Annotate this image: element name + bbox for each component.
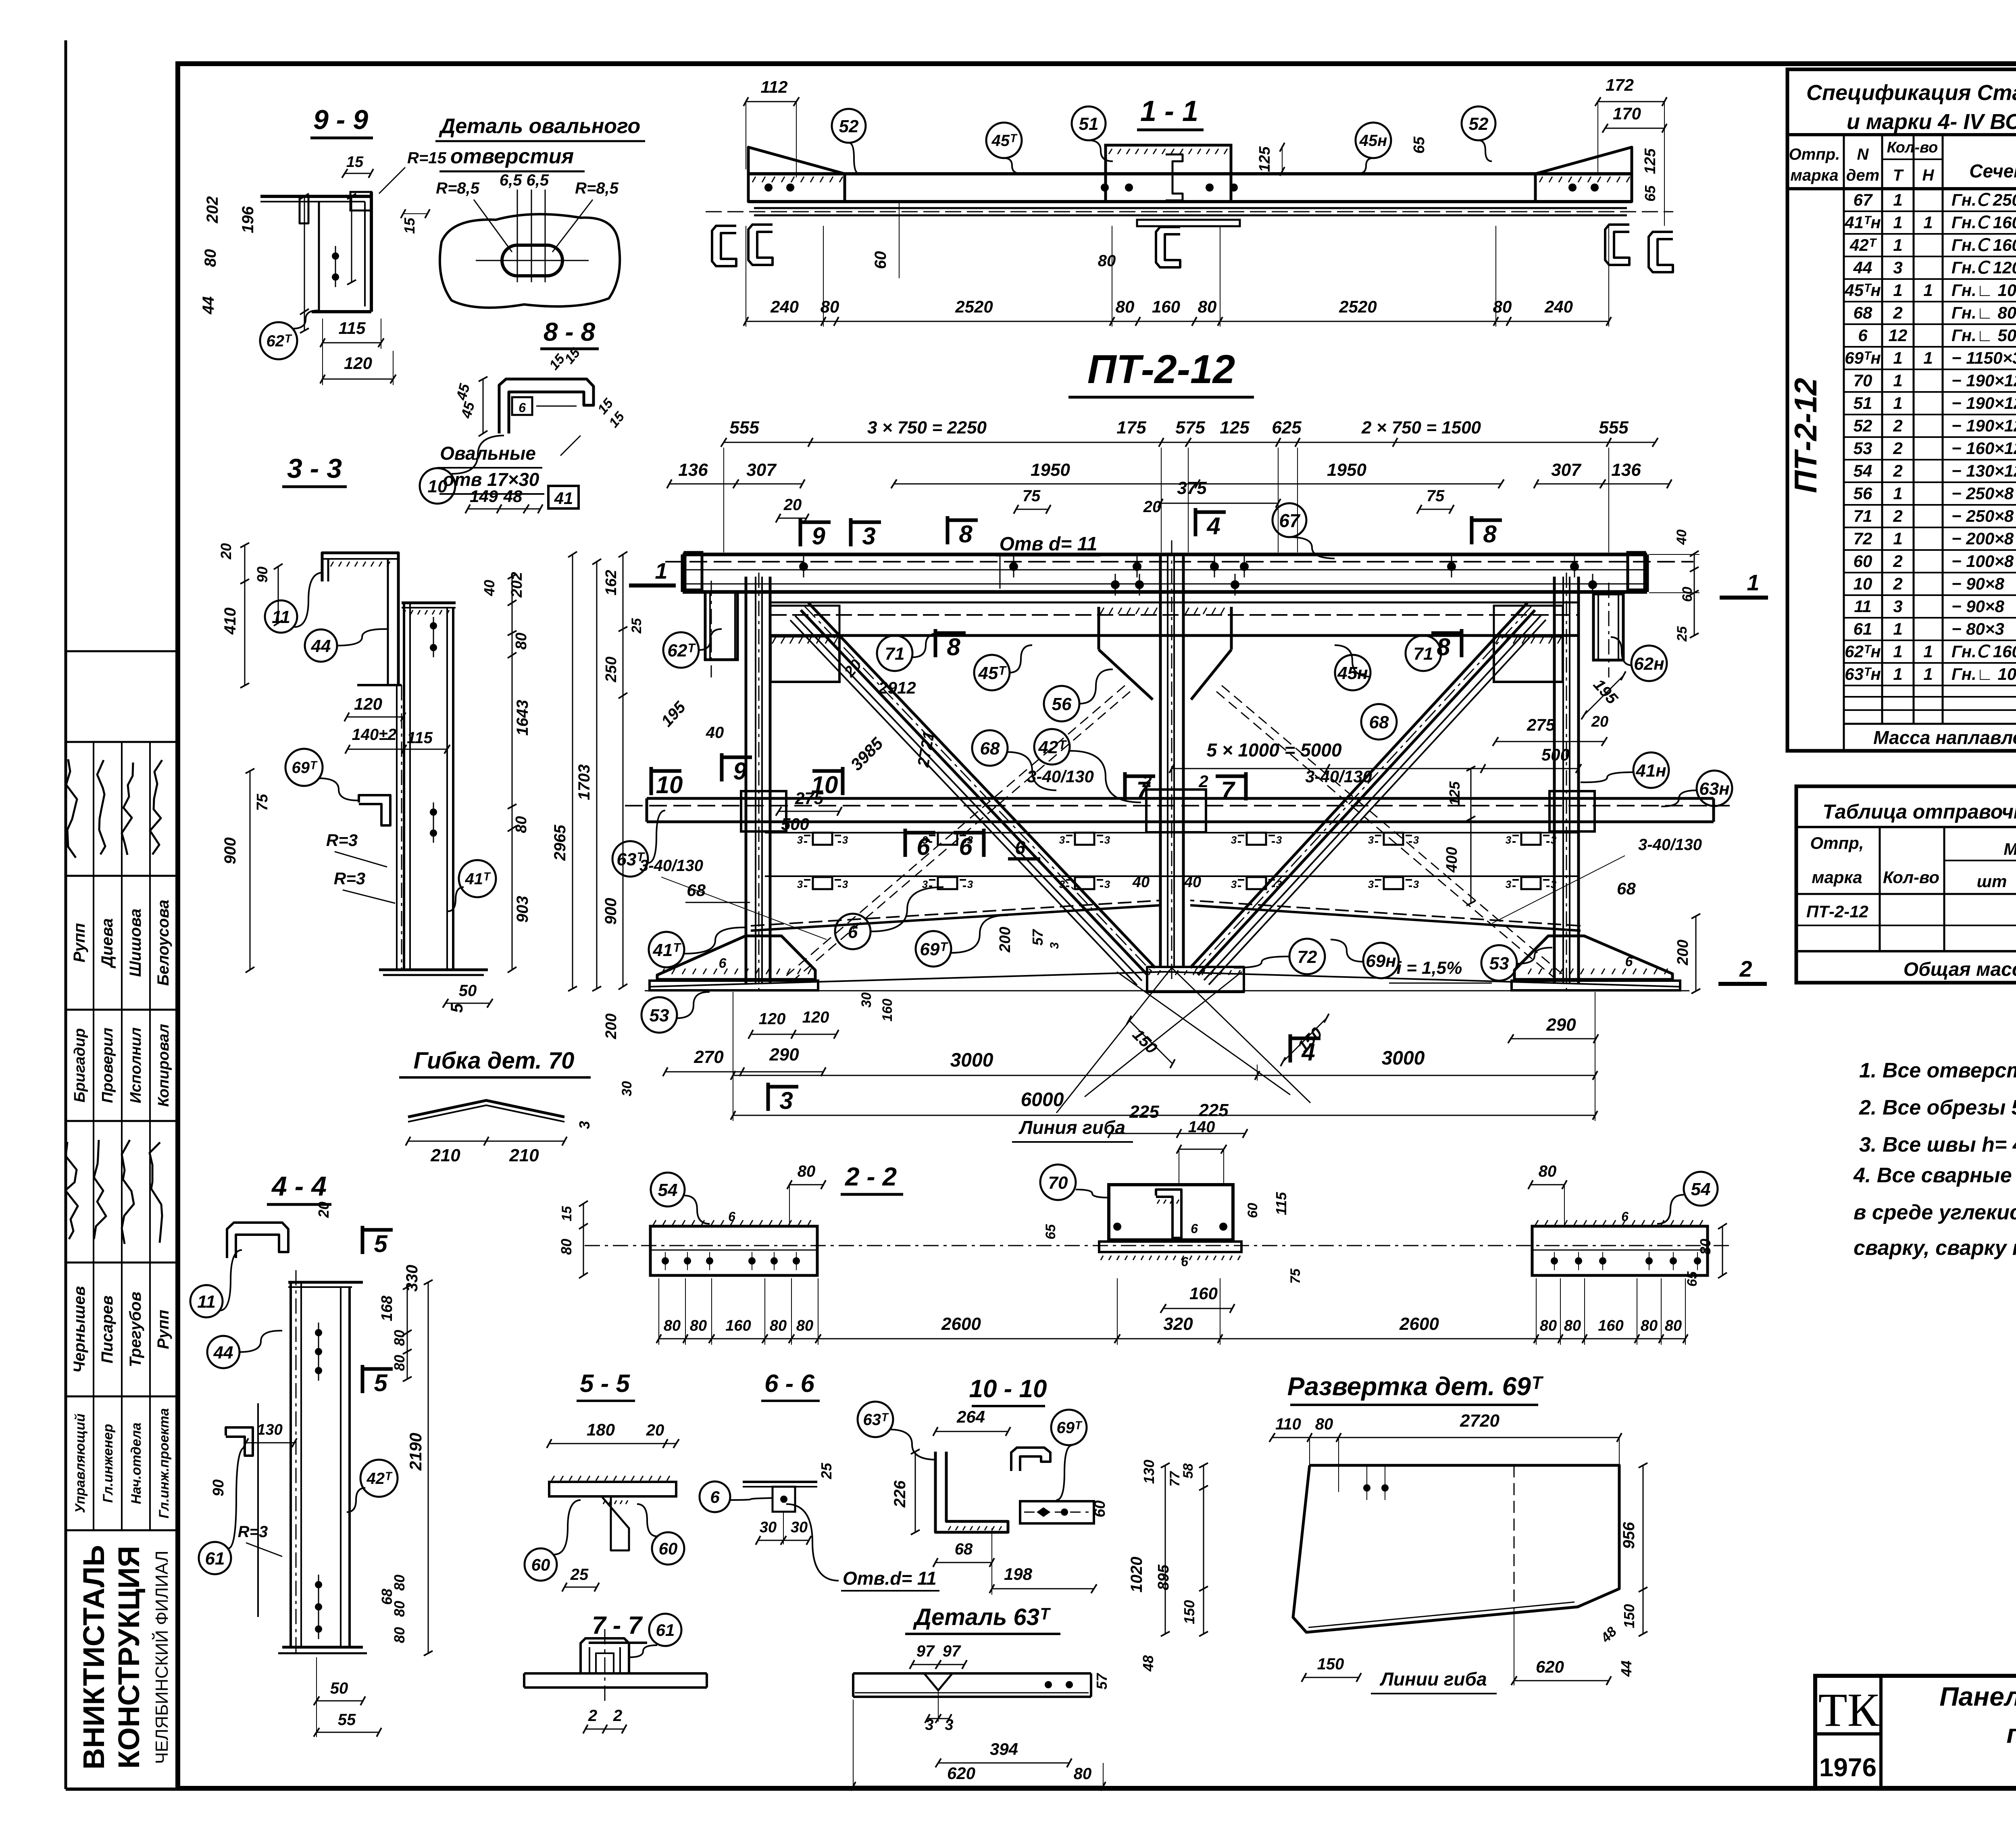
svg-text:25: 25 [818, 1463, 835, 1479]
svg-text:1: 1 [1893, 642, 1902, 661]
svg-text:2190: 2190 [406, 1433, 425, 1471]
beam bolt dots [799, 562, 808, 571]
svg-text:55: 55 [338, 1711, 356, 1729]
svg-text:72: 72 [1297, 947, 1317, 967]
center bottom dims [1110, 1133, 1245, 1134]
3-3 tall member 41t [403, 603, 405, 970]
svg-text:10 - 10: 10 - 10 [969, 1375, 1047, 1403]
svg-text:52: 52 [839, 117, 859, 136]
svg-text:15: 15 [346, 154, 364, 171]
svg-text:71: 71 [885, 644, 905, 664]
svg-text:3000: 3000 [950, 1050, 993, 1071]
svg-text:3: 3 [576, 1121, 593, 1129]
svg-text:Гн.∟ 80×4: Гн.∟ 80×4 [1951, 303, 2016, 322]
title block [1815, 1676, 2016, 1788]
3-3 circles [265, 600, 297, 633]
svg-text:3: 3 [1104, 878, 1110, 890]
circle 68 [1361, 704, 1397, 740]
circle 72 [1289, 939, 1325, 974]
bolt groups row lower [813, 877, 832, 889]
svg-text:9: 9 [733, 758, 747, 785]
circle 69ᵀ [916, 931, 951, 967]
crossing leader X at center bottom [1085, 972, 1242, 1097]
svg-text:6: 6 [1621, 1209, 1629, 1224]
svg-text:54: 54 [658, 1180, 678, 1200]
svg-text:i = 1,5%: i = 1,5% [1397, 958, 1462, 978]
svg-text:61: 61 [205, 1549, 225, 1569]
svg-text:80: 80 [391, 1330, 408, 1346]
svg-text:575: 575 [1175, 418, 1205, 438]
svg-text:53: 53 [1489, 954, 1509, 973]
svg-text:42ᵀ: 42ᵀ [1849, 235, 1877, 254]
svg-text:3: 3 [1276, 834, 1282, 846]
svg-text:Бригадир: Бригадир [71, 1028, 88, 1102]
svg-text:80: 80 [391, 1601, 408, 1617]
svg-text:72: 72 [1854, 529, 1872, 548]
bottom tie lines i=1.5% [650, 972, 1165, 987]
svg-text:2: 2 [1142, 772, 1152, 791]
svg-text:− 160×12: − 160×12 [1951, 439, 2016, 458]
right end bracket and hanging channel 62n [1628, 552, 1645, 590]
svg-text:52: 52 [1469, 114, 1489, 134]
svg-text:112: 112 [761, 77, 788, 96]
svg-text:6: 6 [519, 400, 526, 415]
svg-text:3: 3 [797, 878, 803, 890]
svg-text:1. Все отверстия d= 23,: 1. Все отверстия d= 23, [1859, 1059, 2016, 1082]
svg-text:45н: 45н [1359, 132, 1387, 150]
svg-text:11: 11 [1854, 597, 1872, 616]
svg-text:80: 80 [391, 1355, 408, 1371]
svg-text:− 250×8: − 250×8 [1951, 506, 2014, 525]
svg-text:555: 555 [729, 418, 759, 438]
top chord beam [683, 553, 1647, 556]
svg-text:Развертка дет. 69ᵀ: Развертка дет. 69ᵀ [1287, 1372, 1544, 1401]
svg-text:75: 75 [1427, 487, 1445, 505]
svg-text:115: 115 [1273, 1192, 1289, 1215]
svg-text:120: 120 [759, 1010, 786, 1028]
svg-text:3: 3 [842, 834, 848, 846]
svg-text:80: 80 [513, 816, 530, 833]
svg-text:Гн.∟ 100×5: Гн.∟ 100×5 [1951, 281, 2016, 300]
svg-text:620: 620 [1536, 1657, 1564, 1676]
svg-text:500: 500 [781, 815, 809, 833]
1-1 beam body [748, 172, 1632, 175]
svg-text:63ᵀ: 63ᵀ [863, 1411, 889, 1429]
svg-text:30: 30 [619, 1081, 635, 1096]
svg-text:6: 6 [710, 1488, 720, 1506]
svg-text:2 - 2: 2 - 2 [845, 1162, 897, 1191]
svg-text:3000: 3000 [1382, 1048, 1425, 1069]
svg-text:2: 2 [1893, 506, 1902, 525]
circle 62н [1631, 646, 1667, 681]
svg-text:20: 20 [315, 1202, 332, 1218]
outer left trim line [65, 40, 67, 1789]
svg-text:1: 1 [655, 558, 667, 583]
svg-text:Таблица отправочных марок: Таблица отправочных марок [1822, 800, 2016, 823]
svg-text:57: 57 [1029, 929, 1046, 946]
svg-text:210: 210 [430, 1146, 460, 1165]
10-10 L profile 63t [935, 1452, 1008, 1532]
svg-text:3-40/130: 3-40/130 [1638, 836, 1702, 854]
svg-text:15: 15 [559, 1206, 575, 1221]
leaders [699, 629, 722, 650]
svg-text:320: 320 [1163, 1314, 1193, 1334]
svg-text:4 - 4: 4 - 4 [271, 1171, 327, 1202]
svg-text:3: 3 [797, 834, 803, 846]
svg-text:275: 275 [1527, 715, 1556, 734]
svg-text:54: 54 [1691, 1179, 1711, 1199]
razvertka outline [1293, 1465, 1619, 1632]
svg-text:50: 50 [330, 1679, 348, 1697]
svg-text:58: 58 [1181, 1463, 1196, 1479]
svg-text:120: 120 [802, 1008, 829, 1026]
svg-text:110: 110 [1275, 1415, 1301, 1433]
svg-text:8: 8 [959, 521, 973, 548]
svg-text:Управляющий: Управляющий [73, 1413, 88, 1513]
circle 45н [1335, 655, 1370, 690]
svg-text:− 190×12: − 190×12 [1951, 371, 2016, 390]
svg-text:69н: 69н [1366, 951, 1396, 971]
svg-text:− 90×8: − 90×8 [1951, 597, 2004, 616]
svg-text:41н: 41н [1635, 761, 1666, 781]
svg-text:3: 3 [862, 523, 875, 550]
svg-text:25: 25 [629, 618, 644, 634]
left diagonal brace 68 [808, 603, 1155, 968]
svg-text:6000: 6000 [1021, 1089, 1064, 1110]
svg-text:3: 3 [1506, 834, 1512, 846]
svg-text:40: 40 [481, 580, 498, 596]
svg-text:80: 80 [1697, 1239, 1714, 1255]
svg-text:1: 1 [1893, 371, 1902, 390]
svg-text:Проверил: Проверил [99, 1028, 116, 1103]
svg-text:1020: 1020 [1128, 1557, 1145, 1593]
svg-text:− 130×12: − 130×12 [1951, 461, 2016, 480]
svg-text:2912: 2912 [878, 678, 916, 697]
spec table rows [1844, 210, 2016, 212]
circle 63ᵀ [612, 841, 648, 877]
svg-text:196: 196 [239, 206, 257, 233]
svg-text:200: 200 [603, 1013, 620, 1039]
right support 53 [1514, 936, 1672, 979]
svg-text:225: 225 [1198, 1100, 1229, 1120]
svg-text:63ᵀ: 63ᵀ [616, 850, 645, 869]
svg-text:3: 3 [1893, 258, 1902, 277]
svg-text:3 × 750 = 2250: 3 × 750 = 2250 [867, 418, 987, 438]
svg-text:62ᵀ: 62ᵀ [266, 332, 292, 350]
svg-text:R=3: R=3 [238, 1523, 268, 1541]
svg-text:69ᵀ: 69ᵀ [292, 759, 317, 777]
svg-text:10: 10 [1854, 574, 1872, 593]
svg-text:198: 198 [1004, 1565, 1033, 1583]
center column 42t [1159, 554, 1162, 968]
svg-text:2: 2 [1893, 416, 1902, 435]
bent plate [408, 1100, 564, 1117]
svg-text:6: 6 [719, 956, 727, 971]
3-3 top channel 44 [322, 553, 398, 685]
ext lines row to beam [723, 448, 724, 552]
left support 53 [657, 936, 815, 979]
svg-text:ТК: ТК [1818, 1683, 1880, 1736]
svg-text:5: 5 [374, 1369, 388, 1396]
svg-text:555: 555 [1599, 418, 1629, 438]
svg-text:45ᵀн: 45ᵀн [1844, 281, 1881, 300]
top dimension chain row2 [669, 483, 802, 485]
svg-text:375: 375 [1177, 478, 1207, 498]
9-9 body [260, 195, 371, 198]
svg-text:160: 160 [1189, 1284, 1218, 1303]
2-2 circles 54 [651, 1173, 685, 1206]
svg-text:1 - 1: 1 - 1 [1140, 95, 1198, 127]
svg-text:11: 11 [197, 1292, 216, 1312]
1-1 left end plate [748, 147, 845, 202]
bottom sheet sloped edges [751, 905, 1160, 931]
svg-text:80: 80 [1641, 1317, 1658, 1334]
svg-text:160: 160 [880, 999, 895, 1022]
svg-text:R=15: R=15 [407, 149, 446, 167]
svg-text:57: 57 [1093, 1673, 1110, 1690]
svg-text:Гибка дет. 70: Гибка дет. 70 [414, 1048, 575, 1074]
svg-text:62ᵀ: 62ᵀ [667, 641, 696, 660]
svg-text:44: 44 [311, 636, 331, 656]
svg-text:41ᵀн: 41ᵀн [1844, 213, 1881, 232]
svg-text:3: 3 [1276, 878, 1282, 890]
svg-text:53: 53 [1854, 439, 1872, 458]
svg-text:80: 80 [664, 1317, 681, 1334]
svg-text:6: 6 [848, 922, 858, 942]
section 1 flags on main view [629, 583, 676, 588]
svg-text:2: 2 [588, 1707, 597, 1725]
svg-text:115: 115 [339, 319, 366, 338]
svg-text:80: 80 [1540, 1317, 1557, 1334]
svg-text:− 100×8: − 100×8 [1951, 552, 2014, 571]
svg-text:ПТ-2-12: ПТ-2-12 [1806, 902, 1868, 921]
shipping marks table [1796, 786, 2016, 983]
svg-text:75: 75 [254, 794, 271, 811]
svg-text:3: 3 [1551, 878, 1557, 890]
svg-text:80: 80 [558, 1239, 575, 1255]
svg-text:60: 60 [1245, 1203, 1260, 1218]
bolt groups row upper [813, 833, 832, 845]
svg-text:Общая масса·: Общая масса· [1904, 959, 2016, 980]
svg-text:62н: 62н [1634, 654, 1664, 674]
svg-text:3: 3 [1231, 878, 1237, 890]
2-2 left plate [650, 1226, 817, 1275]
svg-text:200: 200 [1674, 940, 1691, 965]
svg-text:307: 307 [746, 460, 777, 480]
svg-text:12: 12 [1889, 326, 1908, 345]
svg-text:125: 125 [1642, 148, 1659, 174]
svg-text:Отв d= 11: Отв d= 11 [1000, 533, 1098, 555]
svg-text:115: 115 [407, 729, 433, 747]
svg-text:80: 80 [1074, 1765, 1092, 1783]
top dimension chain row1 [724, 442, 1655, 443]
svg-text:− 190×12: − 190×12 [1951, 394, 2016, 413]
svg-text:140: 140 [1188, 1118, 1215, 1136]
svg-text:2. Все обрезы 50,: 2. Все обрезы 50, [1859, 1096, 2016, 1119]
oval hole [502, 245, 562, 276]
svg-text:− 1150×3: − 1150×3 [1951, 348, 2016, 367]
svg-text:53: 53 [650, 1006, 669, 1025]
svg-text:КОНСТРУКЦИЯ: КОНСТРУКЦИЯ [112, 1546, 146, 1769]
svg-text:15: 15 [401, 217, 418, 234]
svg-text:3-40/130: 3-40/130 [1305, 767, 1372, 786]
bottom main dims [733, 1075, 1595, 1076]
2-2 axis [585, 1245, 1730, 1246]
svg-text:Спецификация Сталь марки ВСт: Спецификация Сталь марки ВСт3пс6 по ГОСТ… [1806, 81, 2016, 105]
svg-text:4: 4 [1206, 513, 1220, 540]
svg-text:3: 3 [842, 878, 848, 890]
svg-text:4: 4 [1301, 1039, 1315, 1066]
svg-text:1: 1 [1893, 348, 1902, 367]
svg-text:120: 120 [344, 354, 372, 373]
svg-text:68: 68 [1617, 879, 1636, 898]
svg-text:168: 168 [379, 1295, 396, 1321]
svg-text:ПТ-2-12: ПТ-2-12 [1788, 378, 1823, 493]
svg-text:2720: 2720 [1460, 1411, 1500, 1431]
svg-text:90: 90 [254, 567, 271, 583]
svg-text:500: 500 [1541, 745, 1570, 764]
left vertical dim chains [623, 554, 624, 987]
svg-text:41ᵀ: 41ᵀ [464, 870, 491, 888]
svg-text:150: 150 [1317, 1655, 1344, 1673]
svg-text:дет: дет [1846, 167, 1880, 184]
mass row [1843, 724, 1845, 751]
svg-text:N: N [1857, 146, 1869, 163]
svg-text:1: 1 [1893, 235, 1902, 254]
svg-text:80: 80 [1098, 252, 1116, 270]
svg-text:70: 70 [1048, 1173, 1068, 1193]
svg-text:120: 120 [354, 694, 382, 713]
svg-text:сварку, сварку производить: сварку, сварку производить электродами т… [1854, 1236, 2016, 1260]
svg-text:1: 1 [1923, 665, 1933, 683]
svg-text:− 250×8: − 250×8 [1951, 484, 2014, 503]
circle 41н [1633, 752, 1669, 788]
svg-text:140±2: 140±2 [352, 726, 397, 744]
9-9 left dims [304, 196, 305, 331]
svg-text:Линии гиба: Линии гиба [1379, 1669, 1487, 1690]
mid beam 63t/63n [647, 797, 1714, 800]
svg-text:44: 44 [1853, 258, 1872, 277]
svg-text:68: 68 [1369, 713, 1389, 732]
svg-text:1950: 1950 [1327, 460, 1366, 480]
svg-text:410: 410 [221, 608, 239, 635]
center top gusset [1098, 607, 1100, 650]
svg-text:5: 5 [447, 1003, 466, 1013]
svg-text:3 - 3: 3 - 3 [287, 453, 342, 484]
svg-text:Гн.∟ 100×5: Гн.∟ 100×5 [1951, 665, 2016, 683]
svg-text:80: 80 [202, 249, 219, 267]
svg-text:80: 80 [1665, 1317, 1682, 1334]
svg-text:290: 290 [1546, 1015, 1576, 1035]
svg-text:25: 25 [570, 1566, 589, 1583]
2-2 center assembly [1040, 1165, 1076, 1200]
svg-text:69ᵀ: 69ᵀ [920, 940, 948, 959]
circled 67 [1272, 503, 1306, 537]
svg-text:25: 25 [1674, 626, 1690, 642]
svg-text:40: 40 [1132, 874, 1150, 891]
svg-text:90: 90 [210, 1479, 227, 1496]
svg-text:225: 225 [1129, 1102, 1159, 1122]
left vertical member 41t [745, 577, 748, 984]
svg-text:56: 56 [1854, 484, 1872, 503]
svg-text:Исполнил: Исполнил [127, 1027, 144, 1103]
right back dashed brace 69n [1222, 685, 1564, 976]
svg-text:1: 1 [1893, 619, 1902, 638]
mid beam connection plates [741, 791, 786, 831]
center column foot plate 72 [1147, 967, 1244, 992]
svg-text:63ᵀн: 63ᵀн [1845, 665, 1881, 683]
svg-text:2: 2 [1893, 303, 1902, 322]
left end bracket and hanging channel 62t [685, 552, 702, 590]
svg-text:400: 400 [1443, 847, 1460, 873]
svg-text:2: 2 [1893, 461, 1902, 480]
svg-text:9 - 9: 9 - 9 [313, 104, 368, 135]
svg-text:3: 3 [779, 1087, 793, 1114]
svg-text:2520: 2520 [955, 297, 993, 316]
svg-text:202: 202 [508, 572, 525, 598]
svg-text:Гн.Ⅽ 250×125×6: Гн.Ⅽ 250×125×6 [1951, 190, 2016, 209]
svg-text:54: 54 [1854, 461, 1872, 480]
1-1 hanging channels [712, 226, 736, 266]
svg-text:136: 136 [1611, 460, 1641, 480]
svg-text:Трегубов: Трегубов [127, 1292, 144, 1367]
svg-text:3: 3 [1231, 834, 1237, 846]
4-4 vertical member 42t [289, 1282, 292, 1647]
8-8 channel [499, 379, 594, 433]
svg-text:2: 2 [1739, 956, 1752, 981]
svg-text:240: 240 [1544, 297, 1573, 316]
svg-text:2: 2 [1198, 772, 1208, 791]
1-1 bolts [764, 183, 773, 192]
svg-text:1: 1 [1893, 529, 1902, 548]
svg-text:80: 80 [796, 1317, 813, 1334]
svg-text:3: 3 [1413, 834, 1419, 846]
svg-text:3: 3 [1893, 597, 1902, 616]
svg-text:160: 160 [725, 1317, 751, 1334]
svg-text:Гн.∟ 50×3: Гн.∟ 50×3 [1951, 326, 2016, 345]
svg-text:80: 80 [391, 1627, 408, 1643]
svg-text:60: 60 [1091, 1500, 1108, 1517]
svg-text:80: 80 [513, 633, 530, 650]
svg-text:1: 1 [1923, 642, 1933, 661]
svg-text:ПТ-2-12: ПТ-2-12 [1087, 347, 1235, 392]
svg-text:40: 40 [1674, 529, 1689, 545]
svg-text:Отпр.: Отпр. [1789, 146, 1840, 163]
svg-text:625: 625 [1272, 418, 1302, 438]
4-4 top bracket [227, 1223, 288, 1258]
right top gusset [1494, 606, 1563, 636]
svg-text:30: 30 [760, 1519, 777, 1536]
svg-text:394: 394 [990, 1740, 1018, 1758]
svg-text:125: 125 [1446, 781, 1463, 806]
svg-text:8: 8 [1437, 633, 1450, 660]
svg-text:172: 172 [1606, 75, 1634, 94]
1-1 bottom dims [746, 321, 1609, 322]
svg-text:20: 20 [218, 543, 234, 560]
svg-text:6: 6 [1191, 1221, 1198, 1236]
svg-text:1: 1 [1923, 213, 1933, 232]
specification table [1787, 69, 2016, 751]
svg-text:41: 41 [554, 489, 573, 508]
svg-text:51: 51 [1079, 114, 1099, 134]
svg-text:175: 175 [1116, 418, 1146, 438]
svg-text:шт: шт [1977, 872, 2007, 891]
10-10 channel 69t [1011, 1448, 1050, 1471]
svg-text:8 - 8: 8 - 8 [544, 317, 595, 346]
svg-text:ЧЕЛЯБИНСКИЙ ФИЛИАЛ: ЧЕЛЯБИНСКИЙ ФИЛИАЛ [151, 1550, 172, 1764]
svg-text:Рупп: Рупп [71, 923, 88, 963]
svg-text:Копировал: Копировал [155, 1024, 172, 1107]
